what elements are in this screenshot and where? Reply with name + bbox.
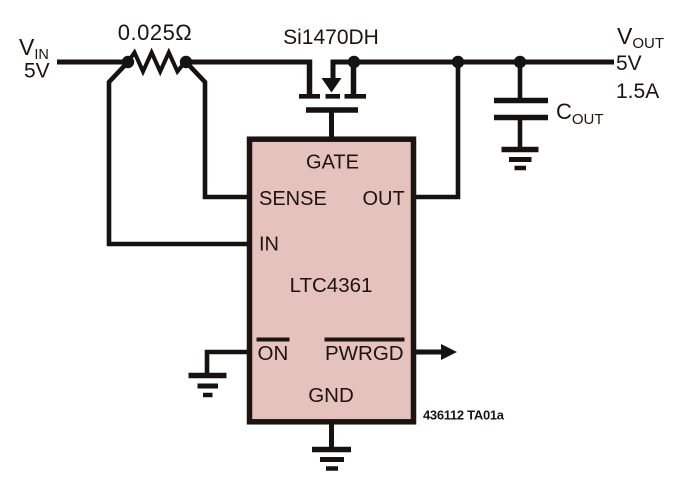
transistor Q1 channel dash middle: [326, 94, 341, 99]
transistor Q1 channel dash right: [345, 94, 367, 99]
wire PWRGD output with arrow: [414, 350, 442, 355]
svg-text:OUT: OUT: [363, 188, 405, 210]
node dot right of resistor: [180, 56, 192, 68]
wire from right resistor node down to SENSE pin: [186, 62, 252, 197]
wire ON pin to ground: [207, 352, 250, 373]
transistor Q1 body-diode: [322, 78, 342, 93]
svg-text:LTC4361: LTC4361: [290, 274, 373, 297]
wire capacitor to ground: [518, 118, 523, 149]
svg-text:COUT: COUT: [556, 99, 604, 128]
svg-text:5V: 5V: [616, 52, 642, 75]
transistor Q1 MOSFET left (source) stub: [307, 60, 313, 97]
svg-text:0.025Ω: 0.025Ω: [118, 20, 193, 45]
wire GND pin to ground: [329, 421, 334, 448]
svg-text:1.5A: 1.5A: [616, 80, 659, 103]
svg-text:GATE: GATE: [306, 152, 359, 174]
node dot at drain on rail: [348, 56, 360, 68]
ground at ON pin: [189, 376, 227, 396]
svg-text:ON: ON: [258, 342, 289, 365]
wire rail from resistor to MOSFET source: [185, 60, 312, 65]
capacitor COUT bottom plate: [494, 115, 548, 121]
svg-text:SENSE: SENSE: [259, 188, 327, 210]
svg-text:436112 TA01a: 436112 TA01a: [423, 408, 505, 423]
capacitor COUT lead from rail: [518, 62, 523, 101]
node dot capacitor junction: [514, 56, 526, 68]
svg-text:5V: 5V: [24, 60, 50, 83]
wire gate lead to IC: [329, 110, 334, 141]
svg-text:PWRGD: PWRGD: [325, 342, 404, 365]
svg-text:Si1470DH: Si1470DH: [283, 26, 379, 49]
ground under COUT: [502, 150, 539, 169]
wire output rail: [333, 62, 614, 78]
svg-text:IN: IN: [259, 234, 279, 256]
capacitor COUT top plate: [494, 98, 548, 104]
node dot OUT rail junction: [452, 56, 464, 68]
wire VIN rail left of resistor: [57, 60, 128, 65]
svg-text:GND: GND: [308, 384, 354, 407]
transistor Q1 channel dash left: [299, 94, 320, 99]
transistor Q1 gate plate: [306, 107, 358, 113]
transistor Q1 right (drain) stub: [351, 62, 357, 96]
resistor R-sense: [128, 53, 185, 72]
wire from left resistor node down to IN pin: [109, 62, 252, 244]
wire OUT pin up to rail: [414, 62, 458, 197]
ground at GND pin: [312, 450, 351, 469]
svg-text:VOUT: VOUT: [617, 23, 664, 52]
op-amp U1 LTC4361 body: [250, 139, 414, 422]
node dot left of resistor: [122, 56, 134, 68]
